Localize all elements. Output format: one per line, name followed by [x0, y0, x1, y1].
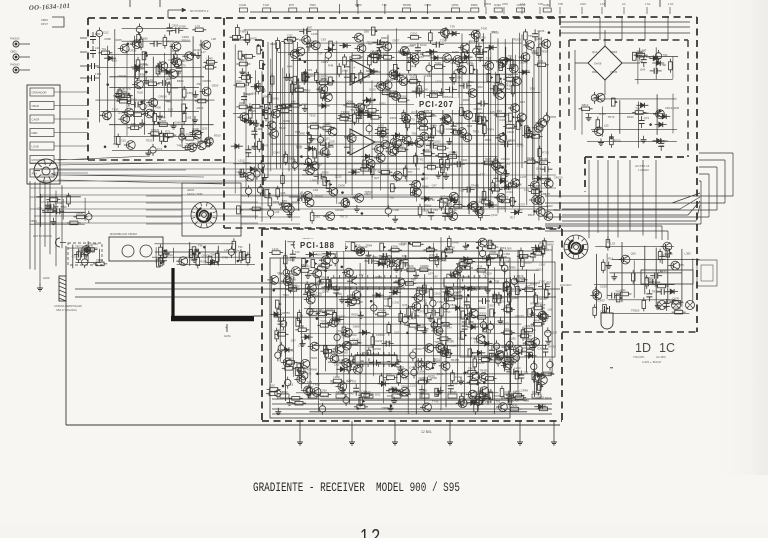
svg-text:CR32: CR32 — [375, 339, 383, 343]
svg-text:R88: R88 — [592, 70, 598, 74]
svg-text:L85: L85 — [187, 116, 192, 120]
svg-text:Q350: Q350 — [525, 261, 532, 265]
svg-text:D60: D60 — [506, 139, 512, 143]
svg-text:T61: T61 — [101, 47, 106, 51]
svg-text:T740: T740 — [432, 399, 439, 403]
svg-text:C560: C560 — [434, 292, 441, 296]
svg-text:Q97: Q97 — [318, 263, 324, 267]
svg-text:TR610: TR610 — [491, 31, 500, 35]
svg-text:TR490: TR490 — [337, 315, 346, 319]
svg-text:L70: L70 — [322, 266, 327, 270]
svg-text:CR440: CR440 — [325, 307, 334, 311]
svg-text:T410: T410 — [401, 377, 408, 381]
svg-text:R720: R720 — [542, 151, 549, 155]
svg-text:TR44: TR44 — [524, 337, 531, 341]
svg-text:T82: T82 — [389, 196, 394, 200]
svg-text:L41: L41 — [289, 348, 294, 352]
svg-text:C90: C90 — [113, 142, 119, 146]
svg-text:R910: R910 — [214, 133, 221, 137]
svg-text:TR48: TR48 — [452, 241, 459, 245]
svg-text:220V: 220V — [580, 2, 586, 6]
svg-text:T830: T830 — [541, 49, 548, 53]
svg-text:T79: T79 — [351, 380, 356, 384]
svg-text:SAIDA | TRIM: SAIDA | TRIM — [187, 193, 202, 196]
svg-text:T750: T750 — [444, 310, 451, 314]
svg-text:L460: L460 — [342, 68, 349, 72]
svg-text:D350: D350 — [390, 116, 397, 120]
svg-text:TR410: TR410 — [471, 184, 480, 188]
svg-text:Q380: Q380 — [410, 76, 417, 80]
svg-text:L160: L160 — [333, 375, 340, 379]
svg-text:GATA: GATA — [224, 334, 231, 338]
svg-text:TR40: TR40 — [347, 391, 354, 395]
svg-text:T480: T480 — [532, 52, 539, 56]
svg-text:L74: L74 — [195, 24, 200, 28]
svg-text:T69: T69 — [210, 253, 215, 257]
svg-text:T67: T67 — [368, 42, 373, 46]
svg-text:C92: C92 — [620, 288, 626, 292]
svg-text:T94: T94 — [337, 329, 342, 333]
svg-text:R770: R770 — [408, 118, 415, 122]
svg-text:R75: R75 — [289, 3, 295, 7]
svg-text:R65: R65 — [306, 371, 312, 375]
svg-text:C19: C19 — [409, 44, 415, 48]
svg-text:T29: T29 — [383, 304, 388, 308]
svg-text:R830: R830 — [351, 312, 358, 316]
svg-text:L17: L17 — [642, 48, 647, 52]
svg-text:TR85: TR85 — [398, 242, 405, 246]
svg-text:T390: T390 — [663, 254, 670, 258]
svg-text:CR13: CR13 — [665, 106, 673, 110]
svg-text:CR350: CR350 — [478, 312, 487, 316]
svg-text:L55: L55 — [604, 123, 609, 127]
svg-text:A-903 +- BOUAY: A-903 +- BOUAY — [642, 360, 662, 364]
svg-text:T81: T81 — [412, 132, 417, 136]
svg-text:PCI-188: PCI-188 — [300, 241, 335, 250]
svg-text:D68: D68 — [295, 130, 301, 134]
svg-text:D210: D210 — [411, 32, 418, 36]
svg-text:T77: T77 — [480, 172, 485, 176]
svg-text:CBCR: CBCR — [32, 104, 40, 108]
svg-text:D78: D78 — [423, 290, 429, 294]
svg-text:CR530: CR530 — [202, 253, 211, 257]
svg-text:CR590: CR590 — [344, 119, 353, 123]
svg-text:L29: L29 — [224, 248, 229, 252]
svg-text:CR150: CR150 — [554, 176, 563, 180]
svg-text:L670: L670 — [435, 79, 442, 83]
svg-text:T660: T660 — [309, 3, 316, 7]
svg-text:CR150: CR150 — [295, 86, 304, 90]
svg-text:CR59: CR59 — [289, 36, 297, 40]
svg-text:CBA 47 GRL20GA: CBA 47 GRL20GA — [56, 309, 77, 312]
svg-text:ANT EXTERNA: ANT EXTERNA — [33, 234, 52, 238]
svg-text:R33: R33 — [497, 109, 503, 113]
svg-text:TR770: TR770 — [452, 112, 461, 116]
svg-text:CB03: CB03 — [10, 50, 17, 54]
svg-text:1.GRD40: 1.GRD40 — [638, 168, 649, 172]
svg-text:R71: R71 — [165, 129, 171, 133]
svg-text:C42: C42 — [421, 299, 427, 303]
svg-text:TR35: TR35 — [313, 382, 320, 386]
svg-text:Q73: Q73 — [538, 59, 544, 63]
svg-text:C900: C900 — [172, 23, 179, 27]
svg-text:Q82: Q82 — [477, 111, 483, 115]
svg-text:CR890: CR890 — [202, 79, 211, 83]
svg-text:TR11: TR11 — [350, 108, 357, 112]
svg-text:C450: C450 — [455, 290, 462, 294]
svg-text:C890: C890 — [104, 37, 111, 41]
svg-text:R240: R240 — [461, 267, 468, 271]
svg-text:D56: D56 — [131, 122, 137, 126]
svg-text:LR20: LR20 — [43, 276, 50, 280]
svg-text:TAB: TAB — [538, 2, 543, 6]
svg-text:L17: L17 — [318, 51, 323, 55]
svg-text:R48: R48 — [328, 64, 334, 68]
svg-text:C68: C68 — [251, 91, 257, 95]
svg-text:D31: D31 — [375, 393, 381, 397]
svg-text:R660: R660 — [167, 40, 174, 44]
svg-text:Q33: Q33 — [202, 127, 208, 131]
svg-text:GR01: GR01 — [187, 188, 195, 192]
svg-text:CR27: CR27 — [364, 192, 372, 196]
svg-text:AC-34M: AC-34M — [656, 355, 666, 359]
svg-text:TR200: TR200 — [315, 282, 324, 286]
svg-text:L660: L660 — [494, 346, 501, 350]
svg-text:GRAVADOR: GRAVADOR — [32, 91, 47, 95]
svg-text:R430: R430 — [197, 106, 204, 110]
svg-text:L80: L80 — [357, 56, 362, 60]
svg-text:C41: C41 — [298, 191, 304, 195]
svg-text:C650: C650 — [488, 304, 495, 308]
svg-text:T75: T75 — [659, 144, 664, 148]
svg-text:CR930: CR930 — [525, 324, 534, 328]
svg-text:D900: D900 — [321, 77, 328, 81]
svg-text:T620: T620 — [137, 91, 144, 95]
svg-text:TR69: TR69 — [468, 366, 475, 370]
svg-text:D230: D230 — [462, 401, 469, 405]
svg-text:L310: L310 — [539, 262, 546, 266]
svg-text:D680: D680 — [353, 325, 360, 329]
svg-text:Q92: Q92 — [445, 201, 451, 205]
svg-text:C24: C24 — [391, 386, 397, 390]
svg-text:CR980: CR980 — [420, 264, 429, 268]
svg-text:D22: D22 — [103, 30, 109, 34]
svg-text:D180: D180 — [543, 3, 550, 7]
svg-text:Q360: Q360 — [319, 139, 326, 143]
svg-text:T110: T110 — [95, 72, 102, 76]
svg-text:AC PTO 14: AC PTO 14 — [635, 164, 650, 168]
svg-text:TR830: TR830 — [403, 3, 412, 7]
svg-text:CR85: CR85 — [449, 344, 457, 348]
svg-text:D630: D630 — [338, 184, 345, 188]
svg-text:C320: C320 — [537, 346, 544, 350]
svg-text:R96: R96 — [530, 302, 536, 306]
svg-text:D110: D110 — [467, 62, 474, 66]
svg-text:TR46: TR46 — [310, 356, 317, 360]
svg-text:L380: L380 — [505, 246, 512, 250]
svg-text:TR970: TR970 — [151, 128, 160, 132]
svg-text:R17: R17 — [510, 216, 516, 220]
svg-text:Q62: Q62 — [235, 249, 241, 253]
svg-text:Q64: Q64 — [501, 246, 507, 250]
svg-text:L210: L210 — [272, 247, 279, 251]
svg-text:D860: D860 — [379, 102, 386, 106]
svg-text:CR92: CR92 — [439, 259, 447, 263]
svg-text:CB81: CB81 — [30, 219, 37, 223]
svg-text:L84: L84 — [419, 55, 424, 59]
svg-text:L420: L420 — [331, 252, 338, 256]
svg-text:T39: T39 — [450, 25, 455, 29]
svg-text:CR68: CR68 — [314, 309, 322, 313]
svg-text:TR21: TR21 — [146, 139, 153, 143]
svg-text:1.5A: 1.5A — [520, 2, 526, 6]
svg-text:Q65: Q65 — [679, 263, 685, 267]
svg-text:T550: T550 — [60, 205, 67, 209]
svg-text:L510: L510 — [238, 159, 245, 163]
svg-text:T51: T51 — [238, 245, 243, 249]
svg-text:ANTENA FERRITE(AM): ANTENA FERRITE(AM) — [54, 304, 82, 308]
svg-text:CR65: CR65 — [115, 38, 123, 42]
svg-text:R82: R82 — [467, 124, 473, 128]
svg-text:C15: C15 — [121, 139, 127, 143]
svg-text:T970: T970 — [474, 341, 481, 345]
svg-text:D810: D810 — [582, 103, 589, 107]
svg-text:R12: R12 — [478, 85, 484, 89]
svg-text:TR450: TR450 — [451, 358, 460, 362]
svg-text:Q550: Q550 — [452, 3, 459, 7]
svg-text:CR24: CR24 — [507, 130, 515, 134]
svg-text:CR830: CR830 — [547, 115, 556, 119]
svg-text:R38: R38 — [429, 253, 435, 257]
svg-text:D600: D600 — [272, 97, 279, 101]
svg-text:D410: D410 — [381, 52, 388, 56]
svg-text:CR35: CR35 — [610, 70, 618, 74]
svg-text:JT42-MTL: JT42-MTL — [633, 355, 645, 359]
svg-text:NO PONTO 2: NO PONTO 2 — [190, 9, 209, 13]
svg-text:CB03: CB03 — [41, 18, 48, 22]
svg-text:C300: C300 — [392, 208, 399, 212]
svg-text:CR220: CR220 — [483, 272, 492, 276]
svg-text:TAB: TAB — [558, 2, 563, 6]
svg-text:C63: C63 — [321, 37, 327, 41]
svg-text:D140: D140 — [239, 3, 246, 7]
svg-text:C20: C20 — [512, 289, 518, 293]
svg-text:C35: C35 — [37, 206, 43, 210]
svg-text:D530: D530 — [77, 211, 84, 215]
svg-text:CR27: CR27 — [392, 38, 400, 42]
svg-text:Q130: Q130 — [386, 78, 393, 82]
svg-text:TR910: TR910 — [436, 130, 445, 134]
svg-text:T430: T430 — [481, 27, 488, 31]
svg-text:T10: T10 — [382, 3, 387, 7]
svg-text:C49: C49 — [447, 325, 453, 329]
svg-text:L240: L240 — [311, 32, 318, 36]
svg-text:D41: D41 — [447, 163, 453, 167]
svg-text:CR490: CR490 — [206, 61, 215, 65]
svg-text:D50: D50 — [95, 32, 101, 36]
svg-text:Q43: Q43 — [640, 67, 646, 71]
svg-text:LOAD: LOAD — [32, 145, 39, 149]
svg-text:R680: R680 — [471, 3, 478, 7]
svg-text:TR84: TR84 — [365, 243, 372, 247]
svg-text:Q12: Q12 — [592, 50, 598, 54]
svg-text:L200: L200 — [497, 82, 504, 86]
svg-text:12 B01: 12 B01 — [421, 430, 432, 434]
svg-text:R930: R930 — [387, 394, 394, 398]
svg-text:C94: C94 — [313, 188, 319, 192]
svg-text:TR140: TR140 — [448, 390, 457, 394]
svg-text:T67: T67 — [408, 170, 413, 174]
svg-text:D910: D910 — [513, 75, 520, 79]
svg-text:L940: L940 — [207, 57, 214, 61]
svg-text:C88: C88 — [541, 192, 547, 196]
svg-text:TR61: TR61 — [446, 337, 453, 341]
svg-text:R87: R87 — [307, 25, 313, 29]
svg-text:R44: R44 — [346, 380, 352, 384]
svg-text:C950: C950 — [320, 389, 327, 393]
svg-text:220V: 220V — [502, 2, 508, 6]
svg-text:Q550: Q550 — [434, 140, 441, 144]
svg-text:Q74: Q74 — [644, 116, 650, 120]
svg-text:R550: R550 — [200, 260, 207, 264]
svg-text:D18: D18 — [288, 382, 294, 386]
svg-text:Q88: Q88 — [404, 263, 410, 267]
svg-text:CR390: CR390 — [353, 341, 362, 345]
svg-text:T990: T990 — [435, 61, 442, 65]
svg-text:Q320: Q320 — [546, 204, 553, 208]
svg-text:CR830: CR830 — [158, 95, 167, 99]
svg-text:L38: L38 — [211, 37, 216, 41]
svg-text:D950: D950 — [179, 24, 186, 28]
svg-text:L910: L910 — [444, 127, 451, 131]
svg-text:C330: C330 — [392, 300, 399, 304]
svg-text:CR35: CR35 — [537, 29, 545, 33]
svg-text:12: 12 — [360, 525, 383, 538]
svg-text:PHONO: PHONO — [10, 37, 20, 41]
svg-text:Q700: Q700 — [479, 35, 486, 39]
svg-text:R44: R44 — [287, 65, 293, 69]
svg-text:Q710: Q710 — [369, 87, 376, 91]
svg-text:TR250: TR250 — [631, 309, 640, 313]
svg-text:TR740: TR740 — [321, 395, 330, 399]
svg-text:TR840: TR840 — [378, 308, 387, 312]
svg-text:AC: AC — [622, 2, 626, 6]
svg-text:T56: T56 — [635, 107, 640, 111]
svg-text:T930: T930 — [309, 114, 316, 118]
svg-text:L92: L92 — [275, 210, 280, 214]
svg-text:1D: 1D — [635, 341, 651, 355]
svg-text:D28: D28 — [329, 139, 335, 143]
svg-text:1.5A: 1.5A — [668, 2, 674, 6]
svg-text:D460: D460 — [494, 3, 501, 7]
svg-text:L260: L260 — [514, 366, 521, 370]
svg-text:R640: R640 — [627, 115, 634, 119]
svg-text:C14: C14 — [477, 264, 483, 268]
svg-text:TR180: TR180 — [540, 157, 549, 161]
svg-text:R16: R16 — [520, 100, 526, 104]
svg-text:CAGR: CAGR — [32, 118, 40, 122]
svg-text:D310: D310 — [420, 43, 427, 47]
svg-text:Q20: Q20 — [270, 384, 276, 388]
svg-text:1.5A: 1.5A — [645, 2, 651, 6]
svg-text:R110: R110 — [599, 112, 606, 116]
svg-text:Q140: Q140 — [491, 213, 498, 217]
svg-text:CR56: CR56 — [129, 48, 137, 52]
svg-text:D260: D260 — [174, 120, 181, 124]
svg-text:L990: L990 — [310, 178, 317, 182]
svg-text:L53: L53 — [610, 242, 615, 246]
svg-text:L380: L380 — [684, 252, 691, 256]
svg-text:R27: R27 — [374, 176, 380, 180]
svg-text:D680: D680 — [172, 86, 179, 90]
svg-text:MONOBLOCK FM/FM: MONOBLOCK FM/FM — [110, 232, 137, 236]
svg-text:Q190: Q190 — [182, 58, 189, 62]
svg-text:T96: T96 — [298, 313, 303, 317]
svg-text:Q56: Q56 — [631, 252, 637, 256]
svg-text:Q850: Q850 — [406, 305, 413, 309]
svg-text:L17: L17 — [201, 50, 206, 54]
svg-text:L470: L470 — [520, 175, 527, 179]
svg-text:TR91: TR91 — [472, 129, 479, 133]
svg-text:D490: D490 — [547, 243, 554, 247]
svg-text:R84: R84 — [236, 79, 242, 83]
svg-text:D500: D500 — [212, 84, 219, 88]
svg-text:T970: T970 — [320, 320, 327, 324]
svg-text:CR27: CR27 — [421, 177, 429, 181]
svg-text:1C: 1C — [659, 341, 675, 355]
svg-text:R680: R680 — [141, 37, 148, 41]
svg-text:R700: R700 — [614, 139, 621, 143]
svg-text:T55: T55 — [528, 34, 533, 38]
svg-text:Q630: Q630 — [672, 106, 679, 110]
svg-text:PCI-207: PCI-207 — [419, 100, 454, 109]
svg-text:C48: C48 — [458, 337, 464, 341]
svg-text:D69: D69 — [392, 390, 398, 394]
svg-text:R830: R830 — [177, 79, 184, 83]
svg-text:GRADIENTE - RECEIVER MODEL 90: GRADIENTE - RECEIVER MODEL 900 / S95 — [253, 482, 460, 496]
svg-text:INPUT: INPUT — [41, 23, 49, 26]
svg-text:R580: R580 — [140, 72, 147, 76]
svg-text:C950: C950 — [425, 3, 432, 7]
svg-text:TR72: TR72 — [608, 115, 615, 119]
svg-text:T530: T530 — [364, 390, 371, 394]
svg-text:CR16: CR16 — [182, 35, 190, 39]
svg-text:CR44: CR44 — [544, 330, 552, 334]
svg-text:TR430: TR430 — [479, 369, 488, 373]
svg-text:CR49: CR49 — [521, 388, 529, 392]
svg-text:C840: C840 — [273, 151, 280, 155]
svg-text:TR300: TR300 — [413, 347, 422, 351]
svg-text:CR180: CR180 — [449, 151, 458, 155]
svg-text:Q140: Q140 — [431, 93, 438, 97]
svg-text:SH-08: SH-08 — [594, 62, 602, 66]
svg-text:D15: D15 — [307, 68, 313, 72]
svg-text:T120: T120 — [263, 3, 270, 7]
svg-text:T180: T180 — [355, 3, 362, 7]
svg-text:L91: L91 — [148, 78, 153, 82]
svg-text:TR92: TR92 — [437, 300, 444, 304]
svg-text:CR84: CR84 — [610, 50, 618, 54]
svg-text:C47: C47 — [432, 183, 438, 187]
svg-text:PHONO: PHONO — [10, 63, 20, 67]
svg-text:MED: MED — [32, 131, 38, 135]
svg-text:D610: D610 — [479, 306, 486, 310]
svg-text:C10: C10 — [523, 254, 529, 258]
